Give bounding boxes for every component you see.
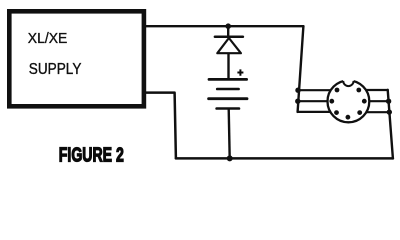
- junction dot right bus pin row 3: [387, 109, 392, 114]
- connector J1 keyway notch: [343, 74, 354, 86]
- diode D1 cathode lead: [227, 26, 229, 35]
- battery BT1 plate 4 (short, -): [217, 107, 239, 110]
- XL/XE supply box U1: [9, 11, 144, 106]
- junction dot left bus pin row 1: [295, 88, 300, 93]
- svg-text:FIGURE 2: FIGURE 2: [59, 145, 124, 166]
- junction dot node B (bottom wire / battery): [227, 155, 233, 161]
- connector J1 pin 4 (S): [346, 115, 351, 120]
- connector J1 pin 1 (NW): [335, 88, 340, 93]
- wire: supply return (lower output, right then down): [144, 93, 176, 159]
- battery BT1 minus lead: [229, 109, 230, 159]
- connector J1 pin 5 (SE): [357, 110, 362, 115]
- junction dot node A (top wire / diode): [225, 23, 231, 29]
- connector J1 pin 3 (SW): [334, 110, 339, 115]
- wire: left bus down to connector: [298, 26, 304, 112]
- connector J1 shell (7-pin DIN): [328, 81, 370, 123]
- wire: stub to pin row 1 right: [363, 89, 388, 91]
- wire: stub to pin row 3 right: [363, 111, 389, 113]
- svg-text:XL/XE: XL/XE: [28, 30, 68, 47]
- diode D1 triangle: [217, 38, 241, 53]
- wire: stub to pin row 1 left: [298, 89, 334, 91]
- battery BT1 plate 1 (long, +): [209, 78, 247, 81]
- wire: bottom horizontal (ground return): [176, 157, 393, 160]
- connector J1 pin 6 (E): [362, 99, 367, 104]
- wire: right vertical up to connector: [388, 90, 393, 159]
- battery BT1 plus label: [237, 69, 243, 75]
- battery BT1 plate 2 (short): [217, 88, 238, 91]
- wire: stub to pin row 2 left: [298, 100, 332, 102]
- connector J1 pin 2 (W): [329, 99, 334, 104]
- svg-text:SUPPLY: SUPPLY: [29, 61, 82, 78]
- junction dot left bus pin row 2: [295, 99, 300, 104]
- diode D1 anode lead: [227, 53, 229, 79]
- battery BT1 plate 3 (long): [209, 97, 247, 100]
- wire: stub to pin row 2 right: [365, 100, 389, 102]
- junction dot right bus pin row 2: [386, 99, 391, 104]
- diode D1 cathode bar: [215, 35, 243, 38]
- connector J1 pin 7 (NE): [356, 88, 361, 93]
- wire: supply + output (top horizontal): [144, 25, 304, 27]
- wire: stub to pin row 3 left: [298, 111, 334, 113]
